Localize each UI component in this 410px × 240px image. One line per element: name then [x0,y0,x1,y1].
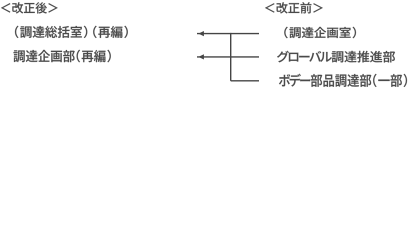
node: Procurement Planning Dept (reorganized) [14,50,111,63]
node: Procurement General Office (reorganized) [15,26,128,38]
node: Body Parts Procurement Dept (part) [279,74,407,87]
label: after-revision header [1,2,58,13]
wire: branch to bottom before-revision item [231,80,259,82]
wire: arrow line into left row 2 [197,56,259,58]
wire: arrow line into left row 1 [197,33,259,35]
wire: vertical bus joining the three before-revision items [230,33,232,81]
node: Global Procurement Promotion Dept [277,51,395,63]
arrowhead on row-2 wire [198,54,204,59]
arrowhead on row-1 wire [198,31,204,36]
node: Procurement Planning Office [284,27,356,38]
label: before-revision header [265,2,323,13]
